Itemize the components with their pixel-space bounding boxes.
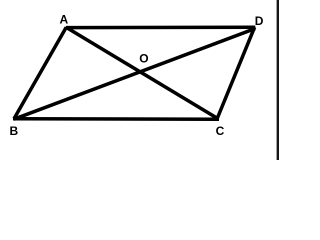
side BC (bottom edge of parallelogram) <box>13 117 219 121</box>
svg-text:B: B <box>10 124 19 138</box>
svg-text:D: D <box>255 14 264 28</box>
svg-text:A: A <box>60 13 69 27</box>
side AB (left edge of parallelogram) <box>14 27 66 118</box>
vertical border band at right edge <box>276 0 279 160</box>
side DC (right edge of parallelogram) <box>217 27 255 119</box>
side AD (top edge of parallelogram) <box>66 25 256 29</box>
svg-text:C: C <box>216 124 225 138</box>
svg-text:O: O <box>139 52 148 66</box>
diagonal AC <box>66 27 218 119</box>
diagonal BD <box>14 29 255 120</box>
